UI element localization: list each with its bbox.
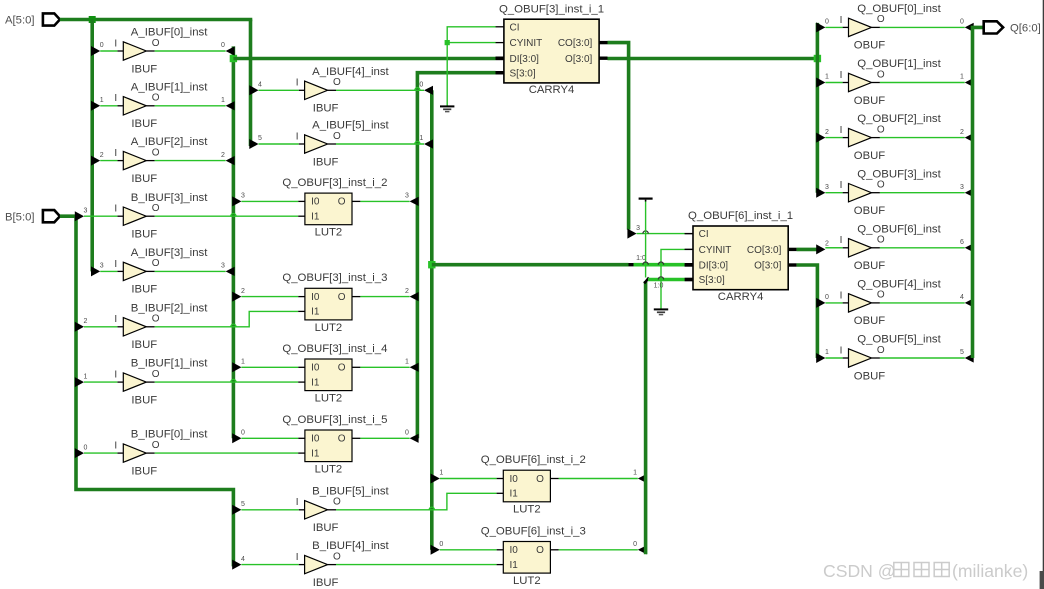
svg-text:O: O [333, 551, 341, 562]
svg-text:3: 3 [84, 207, 88, 214]
svg-text:3: 3 [636, 225, 640, 232]
merge OBUF output into Q bus [965, 243, 974, 252]
svg-text:0: 0 [241, 430, 245, 437]
svg-text:5: 5 [241, 501, 245, 508]
input port A[5:0] [43, 13, 60, 25]
svg-text:Q_OBUF[6]_inst_i_1: Q_OBUF[6]_inst_i_1 [688, 210, 793, 222]
wire Q_OBUF[3]_inst_i_2 output [360, 200, 409, 202]
wire to OBUF input [825, 82, 842, 84]
wire A[5:4] outputs bus vertical [430, 90, 434, 550]
svg-text:I: I [114, 441, 117, 452]
wire A[4] to IBUF [259, 89, 299, 91]
svg-text:1: 1 [84, 373, 88, 380]
svg-text:O: O [338, 197, 346, 208]
svg-text:I0: I0 [311, 292, 320, 303]
svg-text:OBUF: OBUF [854, 370, 885, 382]
svg-text:LUT2: LUT2 [315, 322, 343, 334]
svg-text:1: 1 [221, 97, 225, 104]
tap B bus bit4 [232, 560, 241, 570]
svg-text:IBUF: IBUF [131, 465, 157, 477]
svg-text:B_IBUF[3]_inst: B_IBUF[3]_inst [131, 192, 208, 204]
svg-text:OBUF: OBUF [854, 205, 885, 217]
wire Q_OBUF[3]_inst_i_5 output [360, 437, 409, 439]
wire A_IBUF[5] output [336, 143, 424, 145]
tap B bus bit5 [232, 505, 241, 515]
wire CYINIT of U1 [447, 42, 495, 44]
svg-text:I: I [114, 314, 117, 325]
merge OBUF output into Q bus [965, 298, 974, 307]
svg-text:0: 0 [84, 444, 88, 451]
wire O[3:0] of U2 bus [797, 265, 818, 358]
wire A[5:0] port to bus [60, 18, 252, 22]
svg-text:1: 1 [633, 470, 637, 477]
wire S[1:0] into U2 [648, 278, 685, 282]
wire Q_OBUF[0]_inst output [880, 26, 965, 28]
tap B bus bit0 [75, 448, 84, 458]
svg-text:S[3:0]: S[3:0] [510, 68, 536, 79]
svg-text:O: O [877, 69, 885, 80]
wire CI of U1 to ground [447, 27, 495, 106]
wire to OBUF input [825, 357, 842, 359]
wire A[5] to IBUF [259, 143, 299, 145]
svg-text:1: 1 [439, 470, 443, 477]
svg-text:3: 3 [960, 184, 964, 191]
wire A_IBUF[0] output [155, 50, 226, 52]
svg-text:OBUF: OBUF [854, 260, 885, 272]
tap B bus bit3 [75, 211, 84, 221]
svg-text:0: 0 [960, 19, 964, 26]
wire A_IBUF[3] output [155, 270, 226, 272]
wire to I0 [440, 478, 497, 480]
svg-text:Q_OBUF[3]_inst_i_1: Q_OBUF[3]_inst_i_1 [499, 3, 604, 15]
svg-text:O: O [536, 545, 544, 556]
svg-text:1:0: 1:0 [636, 255, 646, 262]
svg-text:A_IBUF[0]_inst: A_IBUF[0]_inst [131, 27, 208, 39]
wire A[0] to IBUF [100, 50, 117, 52]
svg-text:3: 3 [221, 263, 225, 270]
svg-text:IBUF: IBUF [131, 173, 157, 185]
svg-text:O: O [338, 292, 346, 303]
wire to OBUF input [825, 247, 842, 249]
svg-text:O: O [152, 38, 160, 49]
svg-text:CYINIT: CYINIT [510, 38, 543, 49]
svg-text:3: 3 [100, 263, 104, 270]
tap O2 bit0 to OBUF4 [816, 298, 825, 308]
wire B_IBUF[1] output to LUT2 I1 [155, 381, 299, 383]
ground for U2 CYINIT [654, 308, 668, 310]
wire to OBUF input [825, 137, 842, 139]
wire Q_OBUF[6]_inst_i_3 output [559, 549, 638, 551]
svg-text:1: 1 [241, 359, 245, 366]
tap B bus bit2 [75, 322, 84, 332]
svg-text:Q_OBUF[2]_inst: Q_OBUF[2]_inst [857, 113, 941, 125]
svg-text:3: 3 [825, 184, 829, 191]
tap A bus bit4 [249, 85, 258, 95]
wire to OBUF input [825, 26, 842, 28]
wire B[2] to IBUF [84, 326, 117, 328]
wire Q_OBUF[2]_inst output [880, 137, 965, 139]
merge OBUF output into Q bus [965, 23, 974, 32]
svg-text:6: 6 [960, 239, 964, 246]
tap bus bit0 to Q_OBUF[6]_inst_i_3 I0 [431, 545, 440, 555]
svg-text:IBUF: IBUF [131, 118, 157, 130]
svg-text:I1: I1 [311, 377, 320, 388]
svg-text:Q_OBUF[6]_inst_i_2: Q_OBUF[6]_inst_i_2 [481, 454, 586, 466]
tap CO[3] of U1 to CI of U2 [627, 229, 636, 239]
svg-text:B[5:0]: B[5:0] [5, 211, 35, 223]
svg-text:1: 1 [419, 135, 423, 142]
svg-text:O: O [152, 93, 160, 104]
wire B bus vertical [76, 216, 233, 566]
svg-text:IBUF: IBUF [313, 156, 339, 168]
svg-text:I: I [114, 148, 117, 159]
svg-text:0: 0 [419, 82, 423, 89]
wire DI[3:0] to CARRY4 U1 [233, 57, 495, 61]
svg-text:I: I [296, 497, 299, 508]
tap bus bit1 [816, 78, 825, 88]
wire B[0] to IBUF [84, 452, 117, 454]
wire B[5] to IBUF [241, 509, 298, 511]
wire S2 bus from LUT outputs [644, 281, 648, 554]
tap A bus bit0 [91, 46, 100, 56]
junction DI net [230, 55, 237, 62]
svg-text:2: 2 [405, 288, 409, 295]
svg-text:B_IBUF[0]_inst: B_IBUF[0]_inst [131, 429, 208, 441]
junction DI2 net [428, 261, 435, 268]
window edge right [1043, 0, 1044, 589]
ground for U1 CI/CYINIT [440, 105, 454, 107]
svg-text:0: 0 [221, 42, 225, 49]
wire B_IBUF[3] output to LUT2 I1 [155, 215, 299, 217]
svg-text:Q_OBUF[5]_inst: Q_OBUF[5]_inst [857, 334, 941, 346]
svg-text:I: I [114, 370, 117, 381]
merge A_IBUF[3] into bus [226, 267, 235, 276]
svg-text:I: I [296, 78, 299, 89]
svg-text:IBUF: IBUF [313, 577, 339, 589]
tap B bus bit1 [75, 377, 84, 387]
wire DI[1:0] to CARRY4 U2 [432, 263, 629, 267]
wire B[5:0] port to bus [60, 214, 76, 218]
tap bus bit0 to Q_OBUF[3]_inst_i_5 I0 [232, 433, 241, 443]
svg-text:I: I [114, 38, 117, 49]
merge OBUF output into Q bus [965, 353, 974, 362]
svg-text:I: I [296, 131, 299, 142]
svg-text:OBUF: OBUF [854, 95, 885, 107]
tap bus bit1 to Q_OBUF[6]_inst_i_2 I0 [431, 474, 440, 484]
svg-text:5: 5 [258, 135, 262, 142]
svg-text:2: 2 [825, 241, 829, 248]
svg-text:LUT2: LUT2 [513, 575, 541, 587]
svg-text:O: O [877, 124, 885, 135]
svg-text:I: I [840, 235, 843, 246]
wire B_IBUF[4] output to LUT2 I1 [336, 564, 497, 566]
wire Q_OBUF[3]_inst_i_4 output [360, 366, 409, 368]
svg-text:Q_OBUF[1]_inst: Q_OBUF[1]_inst [857, 58, 941, 70]
svg-text:2: 2 [100, 152, 104, 159]
tap A bus bit3 [91, 266, 100, 276]
svg-text:DI[3:0]: DI[3:0] [699, 261, 729, 272]
wire to I0 [241, 296, 298, 298]
svg-text:2: 2 [825, 129, 829, 136]
svg-text:0: 0 [633, 541, 637, 548]
wire CYINIT of U2 to ground [661, 249, 685, 308]
merge A_IBUF[2] into bus [226, 156, 235, 165]
svg-text:O: O [877, 290, 885, 301]
merge OBUF output into Q bus [965, 78, 974, 87]
svg-text:1: 1 [405, 359, 409, 366]
wire CO[3:0] of U1 [608, 43, 629, 230]
svg-text:B_IBUF[1]_inst: B_IBUF[1]_inst [131, 358, 208, 370]
svg-text:O: O [152, 369, 160, 380]
svg-text:2: 2 [241, 288, 245, 295]
merge LUT output into S bus [410, 292, 419, 301]
svg-text:LUT2: LUT2 [315, 464, 343, 476]
svg-text:OBUF: OBUF [854, 315, 885, 327]
svg-text:I0: I0 [510, 474, 519, 485]
wire power to S2 bend [645, 202, 647, 278]
svg-text:I: I [840, 180, 843, 191]
wire B[3] to IBUF [84, 215, 117, 217]
wire B[1] to IBUF [84, 381, 117, 383]
svg-text:Q_OBUF[3]_inst_i_3: Q_OBUF[3]_inst_i_3 [282, 272, 387, 284]
svg-text:O: O [338, 434, 346, 445]
svg-text:CARRY4: CARRY4 [718, 291, 764, 303]
svg-text:I0: I0 [311, 363, 320, 374]
wire Q_OBUF[4]_inst output [880, 302, 965, 304]
wire A bus vertical [90, 20, 94, 272]
svg-text:Q_OBUF[6]_inst: Q_OBUF[6]_inst [857, 223, 941, 235]
svg-text:O: O [877, 14, 885, 25]
svg-text:Q_OBUF[4]_inst: Q_OBUF[4]_inst [857, 279, 941, 291]
merge A_IBUF[5] into bus [424, 139, 433, 148]
svg-text:CSDN @: CSDN @ [823, 561, 896, 581]
svg-text:4: 4 [241, 556, 245, 563]
wire B_IBUF[2] output to LUT2 I1 [155, 311, 299, 326]
tap bus bit3 [816, 188, 825, 198]
svg-text:3: 3 [241, 193, 245, 200]
svg-text:I1: I1 [311, 448, 320, 459]
wire A[1] to IBUF [100, 105, 117, 107]
svg-text:A_IBUF[3]_inst: A_IBUF[3]_inst [131, 247, 208, 259]
svg-text:DI[3:0]: DI[3:0] [510, 54, 540, 65]
svg-text:I: I [296, 552, 299, 563]
svg-text:Q_OBUF[0]_inst: Q_OBUF[0]_inst [857, 3, 941, 15]
merge A_IBUF[1] into bus [226, 101, 235, 110]
svg-text:I: I [840, 125, 843, 136]
svg-text:S[3:0]: S[3:0] [699, 275, 725, 286]
svg-text:O: O [877, 345, 885, 356]
wire IBUF output collector bus [232, 46, 236, 438]
svg-text:Q_OBUF[3]_inst_i_5: Q_OBUF[3]_inst_i_5 [282, 414, 387, 426]
output port Q[6:0] [984, 21, 1003, 33]
merge A_IBUF[0] into bus [226, 46, 235, 55]
wire A_IBUF[2] output [155, 160, 226, 162]
svg-text:0: 0 [405, 430, 409, 437]
wire S bus to CARRY4 U1 [417, 73, 495, 439]
svg-text:I0: I0 [510, 545, 519, 556]
svg-text:LUT2: LUT2 [315, 227, 343, 239]
svg-text:O: O [152, 314, 160, 325]
svg-text:A_IBUF[2]_inst: A_IBUF[2]_inst [131, 136, 208, 148]
svg-text:O: O [152, 258, 160, 269]
svg-text:Q_OBUF[6]_inst_i_3: Q_OBUF[6]_inst_i_3 [481, 525, 586, 537]
svg-text:O[3:0]: O[3:0] [754, 261, 781, 272]
svg-text:5: 5 [960, 349, 964, 356]
tap A bus bit2 [91, 156, 100, 166]
svg-text:CI: CI [699, 229, 709, 240]
merge OBUF output into Q bus [965, 188, 974, 197]
svg-text:4: 4 [960, 294, 964, 301]
tap bus bit1 to Q_OBUF[3]_inst_i_4 I0 [232, 362, 241, 372]
wire to OBUF input [825, 302, 842, 304]
wire Q_OBUF[6]_inst_i_2 output [559, 478, 638, 480]
junction CYINIT [445, 40, 450, 45]
tap bus bit2 [816, 133, 825, 143]
wire to I0 [241, 437, 298, 439]
svg-text:3: 3 [405, 193, 409, 200]
svg-text:0: 0 [825, 19, 829, 26]
svg-text:LUT2: LUT2 [315, 393, 343, 405]
svg-text:O: O [152, 440, 160, 451]
svg-text:2: 2 [960, 129, 964, 136]
svg-text:0: 0 [825, 294, 829, 301]
svg-text:O: O [536, 474, 544, 485]
svg-text:Q[6:0]: Q[6:0] [1010, 23, 1041, 35]
svg-text:1: 1 [100, 97, 104, 104]
tap bus bit3 to Q_OBUF[3]_inst_i_2 I0 [232, 196, 241, 206]
wire A_IBUF[1] output [155, 105, 226, 107]
svg-text:I0: I0 [311, 197, 320, 208]
svg-text:(milianke): (milianke) [952, 561, 1028, 581]
svg-text:I1: I1 [510, 489, 519, 500]
svg-text:I: I [840, 70, 843, 81]
merge LUT output into S bus [410, 434, 419, 443]
junction O net at OBUF bus [814, 55, 821, 62]
svg-text:A_IBUF[4]_inst: A_IBUF[4]_inst [312, 66, 389, 78]
merge OBUF output into Q bus [965, 133, 974, 142]
svg-text:O: O [333, 497, 341, 508]
input port B[5:0] [43, 210, 60, 222]
svg-text:1:0: 1:0 [654, 282, 664, 289]
svg-text:O: O [333, 77, 341, 88]
svg-text:4: 4 [258, 82, 262, 89]
wire B_IBUF[5] output to LUT2 I1 [336, 493, 497, 510]
wire Q_OBUF[3]_inst_i_3 output [360, 296, 409, 298]
wire to OBUF input [825, 192, 842, 194]
svg-text:IBUF: IBUF [131, 63, 157, 75]
svg-text:OBUF: OBUF [854, 40, 885, 52]
svg-text:2: 2 [221, 152, 225, 159]
scrollbar corner [1040, 571, 1044, 589]
svg-text:CYINIT: CYINIT [699, 245, 732, 256]
svg-text:IBUF: IBUF [313, 103, 339, 115]
svg-text:Q_OBUF[3]_inst_i_4: Q_OBUF[3]_inst_i_4 [282, 343, 387, 355]
wire B[4] to IBUF [241, 564, 298, 566]
svg-text:1: 1 [825, 349, 829, 356]
wire A[2] to IBUF [100, 160, 117, 162]
svg-text:CARRY4: CARRY4 [529, 84, 575, 96]
svg-text:A_IBUF[1]_inst: A_IBUF[1]_inst [131, 81, 208, 93]
tap A bus bit1 [91, 101, 100, 111]
wire Q_OBUF[5]_inst output [880, 357, 965, 359]
svg-text:I: I [840, 15, 843, 26]
merge LUT output into S2 bus [638, 474, 647, 483]
svg-text:I: I [114, 204, 117, 215]
merge LUT output into S2 bus [638, 545, 647, 554]
svg-text:O: O [333, 131, 341, 142]
svg-text:I0: I0 [311, 434, 320, 445]
svg-text:I1: I1 [510, 560, 519, 571]
wire to I0 [440, 549, 497, 551]
wire A[3] to IBUF [100, 270, 117, 272]
wire Q_OBUF[1]_inst output [880, 82, 965, 84]
svg-text:CO[3:0]: CO[3:0] [558, 38, 593, 49]
svg-text:A_IBUF[5]_inst: A_IBUF[5]_inst [312, 120, 389, 132]
svg-text:I1: I1 [311, 212, 320, 223]
tap CO[2] of U2 to OBUF6 [816, 244, 825, 254]
svg-text:IBUF: IBUF [313, 522, 339, 534]
svg-text:OBUF: OBUF [854, 150, 885, 162]
svg-text:I: I [114, 93, 117, 104]
svg-text:O: O [152, 147, 160, 158]
svg-text:I: I [840, 345, 843, 356]
merge A_IBUF[4] into bus [424, 86, 433, 95]
tap bus bit2 to Q_OBUF[3]_inst_i_3 I0 [232, 292, 241, 302]
svg-text:1: 1 [825, 74, 829, 81]
wire Q_OBUF[6]_inst output [880, 247, 965, 249]
wire Q_OBUF[3]_inst output [880, 192, 965, 194]
wire OBUF input bus upper [816, 23, 820, 193]
svg-text:I1: I1 [311, 307, 320, 318]
svg-text:B_IBUF[4]_inst: B_IBUF[4]_inst [312, 540, 389, 552]
svg-text:IBUF: IBUF [131, 394, 157, 406]
svg-text:B_IBUF[5]_inst: B_IBUF[5]_inst [312, 485, 389, 497]
wire to I0 [241, 366, 298, 368]
wire B_IBUF[0] output to LUT2 I1 [155, 452, 299, 454]
tap A bus bit5 [249, 139, 258, 149]
merge LUT output into S bus [410, 363, 419, 372]
wire to I0 [241, 200, 298, 202]
svg-text:IBUF: IBUF [131, 229, 157, 241]
wire O[3:0] of U1 to OBUF bus [608, 57, 818, 61]
tap bus bit0 [816, 22, 825, 32]
wire CO[3:0] of U2 [797, 248, 817, 252]
svg-text:0: 0 [100, 42, 104, 49]
svg-text:Q_OBUF[3]_inst_i_2: Q_OBUF[3]_inst_i_2 [282, 177, 387, 189]
junction A port [89, 16, 96, 23]
svg-text:IBUF: IBUF [131, 284, 157, 296]
wire A_IBUF[4] output [336, 89, 424, 91]
svg-text:O: O [152, 203, 160, 214]
svg-text:CI: CI [510, 22, 520, 33]
svg-text:1: 1 [960, 74, 964, 81]
power bar tied to S bus [639, 198, 653, 200]
svg-text:B_IBUF[2]_inst: B_IBUF[2]_inst [131, 302, 208, 314]
merge LUT output into S bus [410, 197, 419, 206]
svg-text:I: I [840, 290, 843, 301]
adapter S2 [644, 278, 649, 284]
svg-text:CO[3:0]: CO[3:0] [747, 245, 782, 256]
wire CO[3] to CI of U2 [637, 233, 685, 235]
svg-text:O: O [338, 363, 346, 374]
svg-text:I: I [114, 259, 117, 270]
svg-text:LUT2: LUT2 [513, 504, 541, 516]
wire A[5:4] bus vertical [249, 20, 253, 147]
svg-text:0: 0 [439, 541, 443, 548]
svg-text:O: O [877, 180, 885, 191]
wire CO[2] to OBUF [825, 247, 841, 249]
svg-text:O: O [877, 235, 885, 246]
